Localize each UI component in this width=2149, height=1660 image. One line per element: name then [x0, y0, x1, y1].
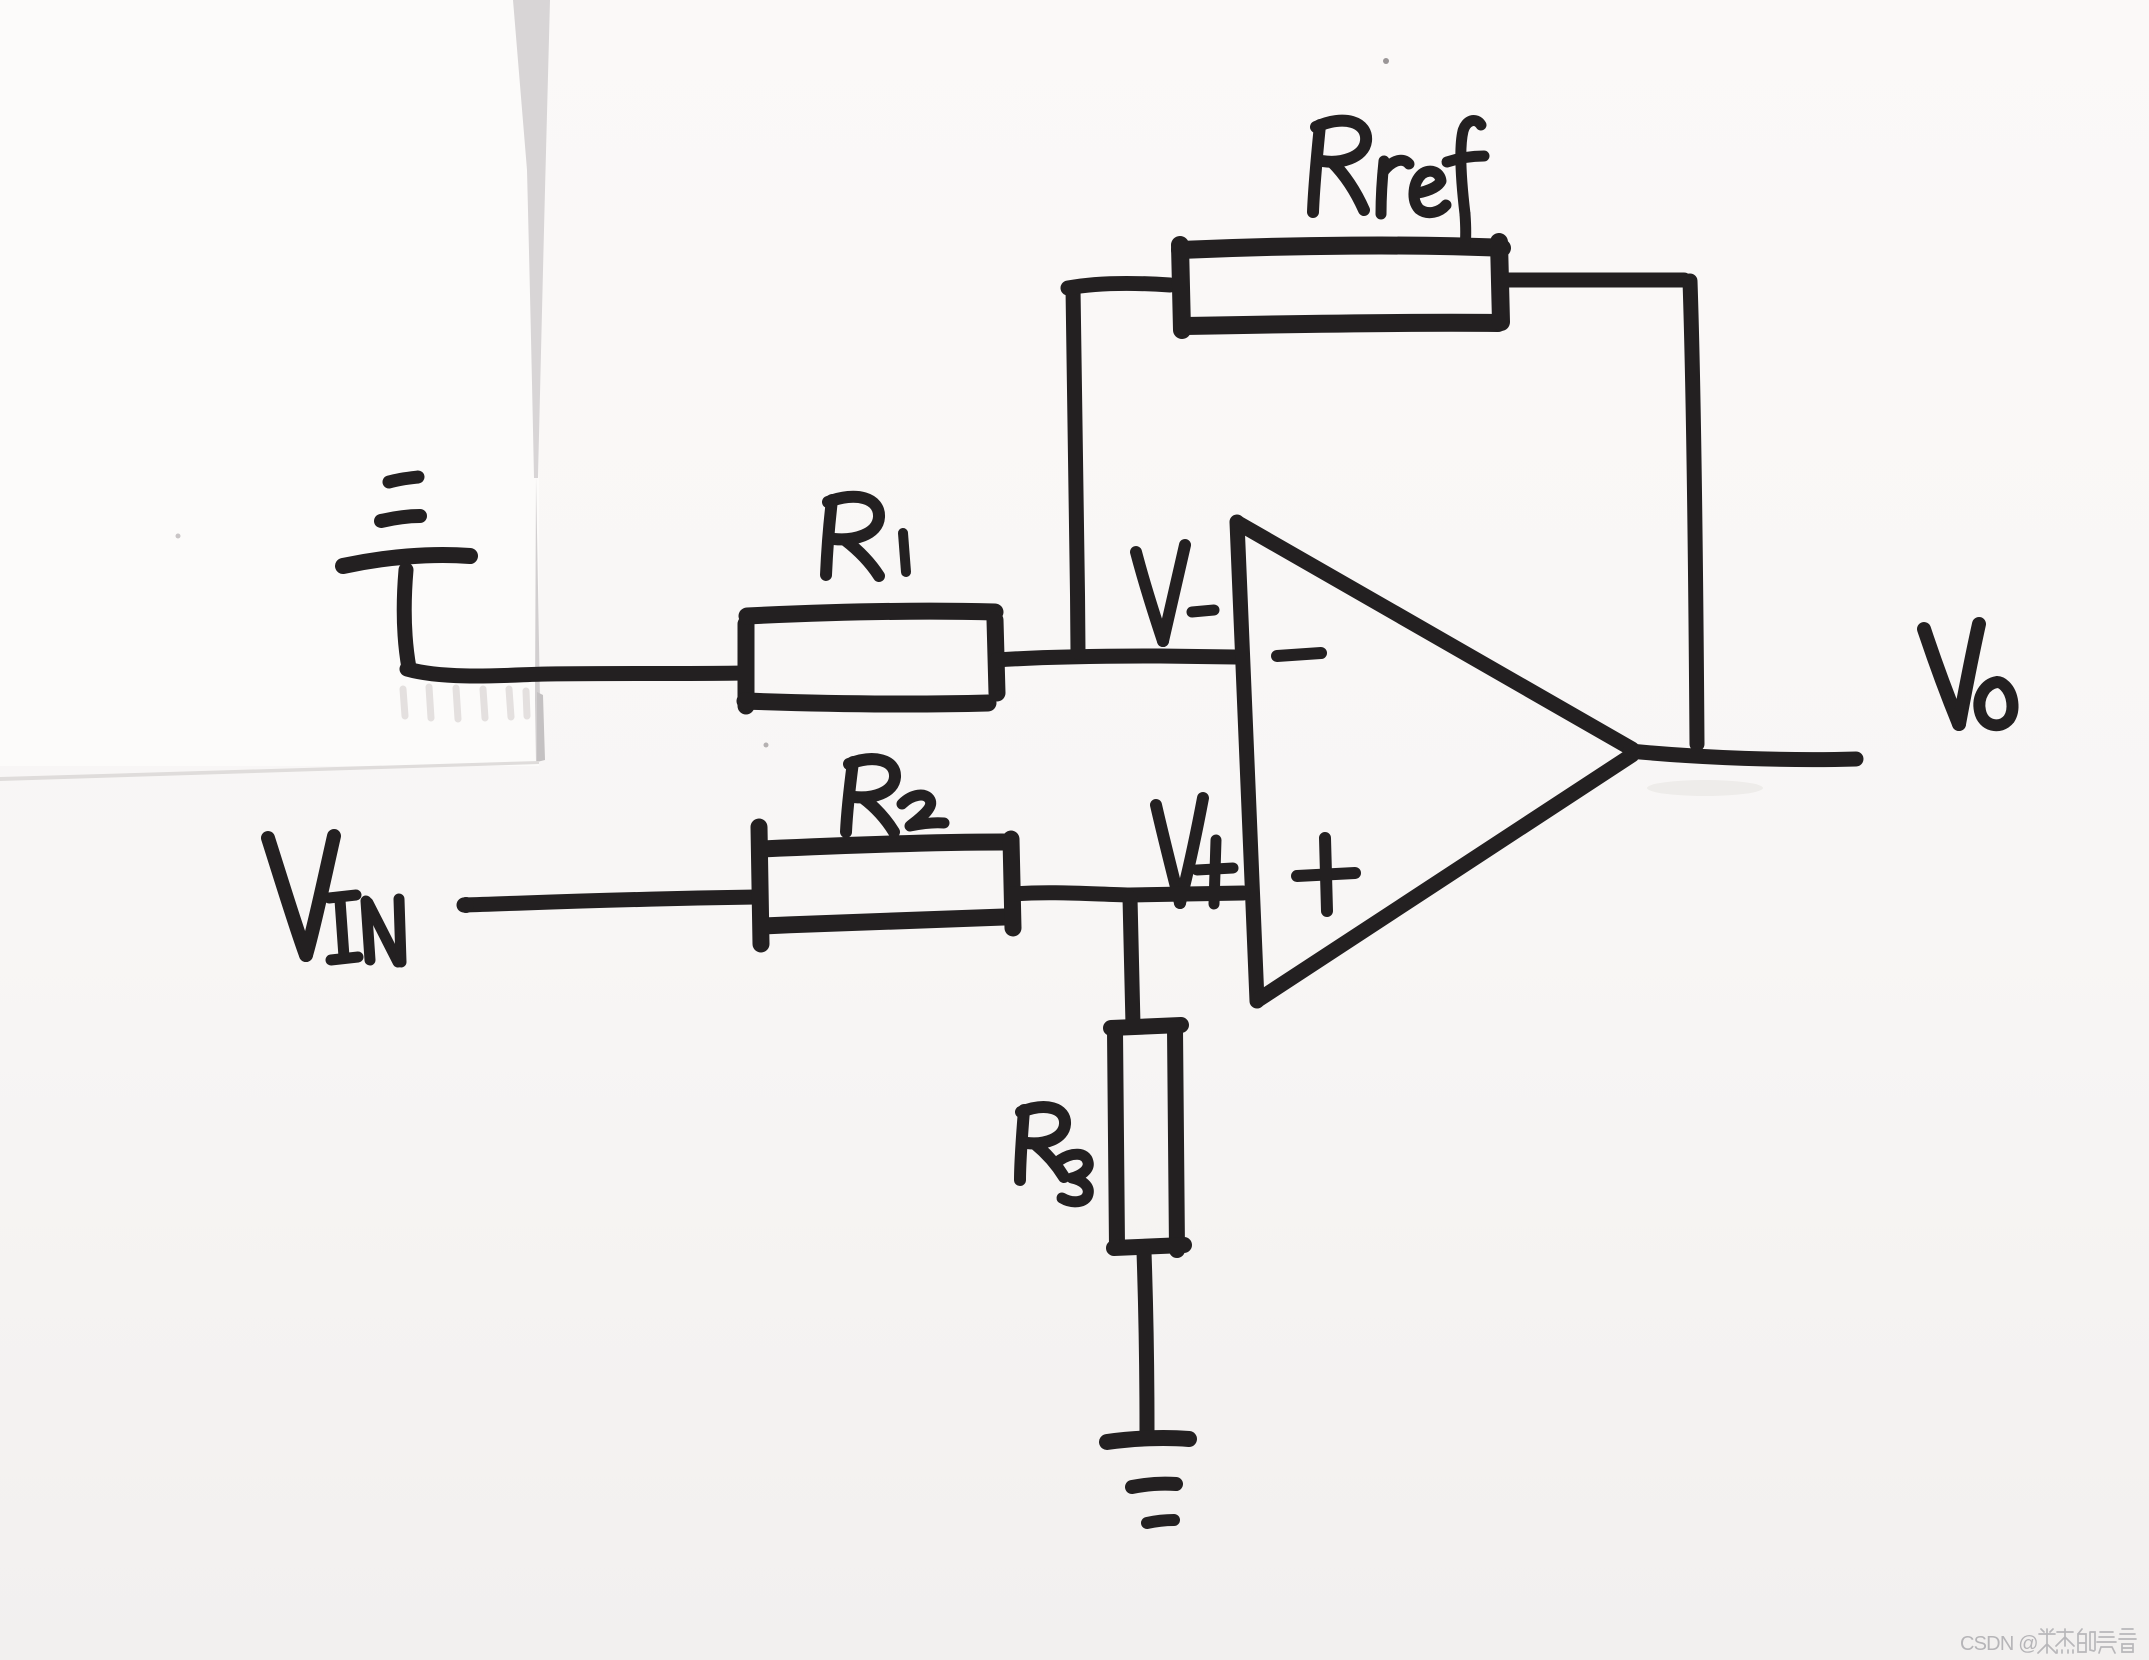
- wire GND1 to R1 left lead: [407, 669, 744, 676]
- label R1 value text: [826, 497, 906, 576]
- ground GND2 small bar: [1147, 1520, 1174, 1523]
- ground GND1 long bar: [343, 555, 470, 566]
- wire R2 to node V+ to op-amp non-inverting input: [1013, 893, 1243, 895]
- op-amp U1 inverting input minus sign: [1277, 653, 1321, 656]
- node V- / wire feedback vertical segment: [1073, 288, 1078, 652]
- wire feedback right vertical segment to output node: [1690, 281, 1697, 744]
- faint eraser smudge below op-amp apex: [1647, 780, 1763, 796]
- label R3 value text: [1020, 1107, 1088, 1202]
- svg-text:CSDN @: CSDN @: [1960, 1633, 2038, 1655]
- wire R3 bottom lead to GND2: [1144, 1252, 1147, 1431]
- ground GND2 long bar: [1107, 1438, 1189, 1442]
- sheet bottom edge faint line: [0, 761, 539, 781]
- sheet edge darker tail: [537, 692, 545, 762]
- ground GND2 middle bar: [1132, 1484, 1176, 1487]
- label VIN input: [268, 836, 401, 962]
- resistor R1: [738, 624, 755, 706]
- label R2 value text: [846, 759, 944, 832]
- op-amp U1 non-inverting input plus sign: [1297, 873, 1355, 876]
- wire VIN to R2 left lead: [464, 897, 756, 905]
- op-amp U1: [1237, 522, 1257, 1001]
- wire Rref right lead: [1508, 273, 1684, 288]
- label Rref text: [1313, 120, 1484, 246]
- sheet right edge shadow wedge: [513, 0, 550, 478]
- wire op-amp output to Vo: [1630, 751, 1856, 760]
- resistor Rref: [1180, 245, 1182, 330]
- wire R1 to node V- to op-amp inverting input: [997, 656, 1235, 660]
- ground GND1 middle bar: [381, 516, 420, 521]
- overlapping top-left sheet (brighter): [0, 0, 539, 766]
- label node V+: [1156, 798, 1233, 904]
- resistor R3: [1111, 1025, 1181, 1028]
- sheet edge thin line lower part: [535, 476, 543, 762]
- ground GND1 stem: [404, 570, 409, 668]
- bleed-through faint marks: [403, 687, 527, 719]
- wire jog to Rref left lead: [1068, 283, 1170, 288]
- label node V-: [1136, 545, 1214, 641]
- ground GND1 top short bar: [389, 477, 418, 482]
- node V+ junction stub wire to R3: [1130, 898, 1133, 1025]
- label Vo output: [1924, 624, 2012, 725]
- resistor R2: [759, 827, 761, 944]
- tiny paper specks: [1383, 58, 1389, 64]
